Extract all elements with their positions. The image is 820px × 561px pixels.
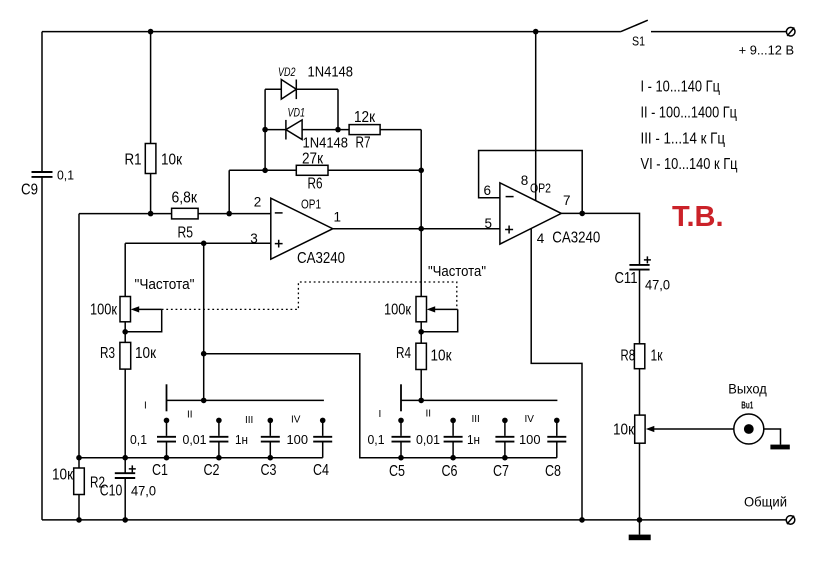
junction rail / C10 <box>122 517 128 523</box>
svg-text:C1: C1 <box>152 462 168 479</box>
wire pin3 line <box>125 242 271 244</box>
capacitor C8 <box>519 418 566 480</box>
svg-text:+ 9...12 В: + 9...12 В <box>739 42 795 57</box>
svg-text:C11: C11 <box>615 270 638 287</box>
wire top rail <box>42 31 621 33</box>
junction R1 bottom / R5 line <box>148 211 154 217</box>
wire OP2 pin8 from top rail <box>535 32 537 201</box>
junction top rail / R1 <box>148 29 154 35</box>
wire OP2 pin4 route to rail <box>531 229 582 520</box>
svg-text:"Частота": "Частота" <box>428 264 486 280</box>
bank1 switch arm <box>166 384 168 411</box>
switch S1 <box>621 20 787 48</box>
resistor R3 <box>100 322 157 473</box>
junction pin3 / selector column <box>201 241 207 247</box>
wire VD network left vertical <box>264 89 266 170</box>
dotted gang link <box>162 282 457 309</box>
terminal +9...12V <box>786 27 795 36</box>
resistor R6 <box>296 151 328 193</box>
junction VD1 left <box>262 127 268 133</box>
svg-text:10к: 10к <box>52 467 74 484</box>
svg-text:10к: 10к <box>431 348 453 365</box>
wire VD2 right vertical <box>337 89 339 129</box>
bank2 selector bus <box>401 399 557 401</box>
svg-text:3: 3 <box>250 231 258 246</box>
resistor R8 <box>621 344 664 415</box>
wire VD1/R7 line <box>265 129 421 131</box>
svg-text:II: II <box>187 410 193 421</box>
junction top rail / OP2 pin8 <box>533 29 539 35</box>
capacitor C2 <box>183 418 229 479</box>
svg-text:0,1: 0,1 <box>57 168 74 183</box>
wire pin2 node vertical <box>228 170 230 213</box>
capacitor C10 <box>100 465 156 520</box>
junction VD2/VD1 right <box>335 127 341 133</box>
wire OP1 output to OP2 pin5 <box>333 228 500 230</box>
svg-text:6: 6 <box>484 183 492 198</box>
potentiometer "Частота" 100к right <box>384 264 486 332</box>
svg-text:C5: C5 <box>389 463 405 480</box>
svg-text:7: 7 <box>563 193 571 208</box>
wire Bu1 to ground <box>764 429 781 445</box>
svg-text:R4: R4 <box>396 345 411 362</box>
svg-text:III - 1...14 к Гц: III - 1...14 к Гц <box>641 130 726 147</box>
svg-text:C10: C10 <box>100 483 123 500</box>
junction rail / output pot <box>637 517 643 523</box>
capacitor C11 <box>615 256 671 343</box>
svg-text:C9: C9 <box>21 182 38 199</box>
svg-text:C2: C2 <box>204 462 220 479</box>
op-amp OP1 <box>250 195 345 267</box>
svg-text:R6: R6 <box>308 176 323 193</box>
svg-text:47,0: 47,0 <box>131 483 156 499</box>
potentiometer 10к output <box>613 415 734 520</box>
svg-text:0,01: 0,01 <box>183 433 207 447</box>
svg-text:100: 100 <box>287 433 309 447</box>
svg-text:10к: 10к <box>135 345 157 362</box>
junction bottom bus / R3,C10 <box>122 455 128 461</box>
svg-text:6,8к: 6,8к <box>172 189 198 206</box>
svg-text:100: 100 <box>519 433 541 447</box>
svg-text:27к: 27к <box>302 151 324 168</box>
svg-text:II - 100...1400 Гц: II - 100...1400 Гц <box>641 104 738 121</box>
svg-text:C3: C3 <box>261 462 277 479</box>
node range list <box>641 79 738 174</box>
svg-text:Bu1: Bu1 <box>741 400 753 412</box>
junction bottom bus / R2 <box>76 455 82 461</box>
svg-text:0,01: 0,01 <box>416 433 440 447</box>
potentiometer "Частота" 100к left <box>90 277 195 332</box>
capacitor C9 <box>21 168 74 199</box>
svg-text:C8: C8 <box>545 463 561 480</box>
wire bank1 bottom bus <box>79 457 323 459</box>
op-amp OP2 <box>484 173 601 246</box>
junction rail / R2 <box>76 517 82 523</box>
capacitor C1 <box>130 418 176 479</box>
svg-text:VD2: VD2 <box>278 65 296 79</box>
junction bus2 / R4 <box>418 398 424 404</box>
svg-text:Выход: Выход <box>728 382 767 397</box>
svg-text:C6: C6 <box>442 463 458 480</box>
junction pot2 bottom / wiper <box>418 329 424 335</box>
svg-text:VD1: VD1 <box>288 106 306 120</box>
resistor R4 <box>396 322 452 401</box>
junction pot1 bottom / wiper <box>122 329 128 335</box>
svg-text:CA3240: CA3240 <box>297 250 345 267</box>
wire bottom rail <box>42 519 786 521</box>
wire pin3 corner down to pot1 <box>124 243 126 296</box>
svg-text:CA3240: CA3240 <box>552 229 600 246</box>
junction R5 right / pin2 <box>226 211 232 217</box>
svg-text:II: II <box>426 409 432 420</box>
svg-text:C4: C4 <box>313 462 329 479</box>
svg-text:I - 10...140 Гц: I - 10...140 Гц <box>641 79 721 96</box>
junction rail / pin4 route <box>579 517 585 523</box>
junction link branch <box>201 351 207 357</box>
svg-text:100к: 100к <box>90 302 118 319</box>
wire R6 line <box>229 169 421 171</box>
wire left rail upper <box>41 32 43 172</box>
wire left rail lower <box>41 177 43 520</box>
svg-text:1N4148: 1N4148 <box>303 136 349 152</box>
capacitor C7 <box>467 418 514 480</box>
wire left mid vertical (R5 corner to R2 to rail) <box>78 214 80 520</box>
svg-text:1N4148: 1N4148 <box>308 65 354 81</box>
svg-text:8: 8 <box>521 173 529 188</box>
svg-text:I: I <box>144 401 147 412</box>
junction R6 left / VD column <box>262 168 268 174</box>
svg-text:Общий: Общий <box>744 495 787 510</box>
svg-text:R5: R5 <box>178 225 194 242</box>
junction bus1 / selector column <box>201 398 207 404</box>
bank1 selector bus <box>167 399 324 401</box>
wire selector column <box>203 243 205 400</box>
terminal Общий <box>744 495 795 525</box>
svg-text:R3: R3 <box>100 345 115 362</box>
wire main ground stub <box>639 520 641 535</box>
svg-text:12к: 12к <box>354 109 376 126</box>
ground Bu1 <box>770 445 789 450</box>
svg-text:R8: R8 <box>621 348 636 365</box>
svg-text:0,1: 0,1 <box>368 433 385 447</box>
svg-text:1к: 1к <box>651 348 664 365</box>
junction R6 right / x421 <box>418 168 424 174</box>
svg-text:R7: R7 <box>356 135 371 152</box>
svg-text:IV: IV <box>291 415 301 426</box>
junction OP2 output / feedback <box>579 211 585 217</box>
svg-text:S1: S1 <box>632 34 645 49</box>
svg-text:R1: R1 <box>125 152 142 169</box>
connector Bu1 <box>728 382 767 445</box>
capacitor C4 <box>287 418 333 479</box>
svg-text:OP1: OP1 <box>301 196 321 211</box>
svg-text:10к: 10к <box>161 152 183 169</box>
svg-text:2: 2 <box>254 195 262 210</box>
svg-text:47,0: 47,0 <box>645 277 670 293</box>
svg-text:100к: 100к <box>384 302 412 319</box>
ground main <box>629 535 651 541</box>
svg-text:III: III <box>245 415 253 426</box>
wire OP2 feedback loop <box>479 151 583 214</box>
capacitor C6 <box>416 418 463 480</box>
svg-text:VI - 10...140 к Гц: VI - 10...140 к Гц <box>641 156 738 173</box>
bank2 switch arm <box>400 384 402 411</box>
svg-text:Т.В.: Т.В. <box>672 201 724 233</box>
wire feedback column x421 <box>420 130 422 297</box>
svg-text:5: 5 <box>485 216 493 231</box>
svg-text:OP2: OP2 <box>530 180 551 195</box>
svg-text:10к: 10к <box>613 422 635 439</box>
diode VD2 <box>278 65 353 100</box>
svg-text:0,1: 0,1 <box>130 433 147 447</box>
svg-text:4: 4 <box>537 231 545 246</box>
capacitor C5 <box>368 418 411 480</box>
svg-text:I: I <box>379 409 382 420</box>
capacitor C3 <box>235 418 280 479</box>
resistor R2 <box>52 467 105 495</box>
svg-text:III: III <box>472 414 480 425</box>
resistor R7 <box>349 109 380 152</box>
svg-text:1: 1 <box>334 209 342 224</box>
junction OP1 output / x421 <box>418 226 424 232</box>
wire OP2 output <box>561 213 639 265</box>
svg-text:1н: 1н <box>467 433 480 447</box>
resistor R5 <box>79 189 271 241</box>
svg-text:1н: 1н <box>235 433 248 447</box>
resistor R1 <box>125 32 183 214</box>
wire link to bank2 bottom bus <box>204 354 557 458</box>
svg-text:"Частота": "Частота" <box>135 277 195 293</box>
wire VD2 top branch <box>265 88 338 90</box>
diode VD1 <box>286 106 348 152</box>
svg-text:IV: IV <box>525 414 535 425</box>
svg-text:C7: C7 <box>493 463 509 480</box>
